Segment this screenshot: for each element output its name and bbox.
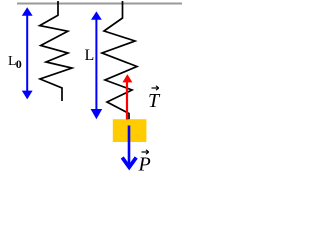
svg-text:T: T	[148, 90, 161, 112]
svg-text:P: P	[138, 154, 151, 176]
svg-text:L: L	[85, 47, 95, 64]
svg-text:0: 0	[16, 57, 22, 71]
